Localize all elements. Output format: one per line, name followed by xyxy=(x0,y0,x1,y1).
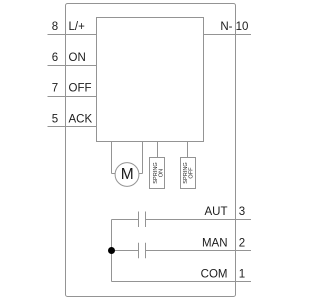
svg-text:N-: N- xyxy=(220,21,232,33)
svg-text:COM: COM xyxy=(201,269,228,281)
wire MAN right segment to terminal 2 xyxy=(146,250,252,252)
wire terminal 7 OFF xyxy=(48,96,97,98)
wire COM to terminal 1 xyxy=(112,281,252,283)
svg-text:10: 10 xyxy=(236,21,249,33)
svg-text:3: 3 xyxy=(239,206,245,218)
wire common vertical bus xyxy=(111,220,113,282)
spring-return OFF stem wire xyxy=(187,142,189,158)
motor leg left wire xyxy=(111,142,113,174)
spring-return ON box xyxy=(150,158,165,189)
wire terminal N- 10 xyxy=(204,34,252,36)
enclosure outer box xyxy=(66,4,236,297)
svg-text:MAN: MAN xyxy=(202,237,228,249)
svg-text:L/+: L/+ xyxy=(69,21,86,33)
svg-text:M: M xyxy=(121,166,134,183)
svg-text:8: 8 xyxy=(52,21,58,33)
wire terminal 5 ACK xyxy=(48,126,97,128)
svg-text:ON: ON xyxy=(158,169,164,177)
svg-text:5: 5 xyxy=(52,113,58,125)
motor stub left wire xyxy=(112,173,116,175)
svg-text:6: 6 xyxy=(52,52,58,64)
svg-text:ACK: ACK xyxy=(69,113,93,125)
motor leg right wire xyxy=(142,142,144,174)
svg-text:7: 7 xyxy=(52,83,58,95)
svg-text:2: 2 xyxy=(239,237,245,249)
wire MAN left segment xyxy=(112,250,139,252)
device inner box xyxy=(97,18,204,142)
contact S-AUT bars xyxy=(138,212,140,228)
wire terminal 6 ON xyxy=(48,65,97,67)
wire terminal 8 L/+ xyxy=(48,34,97,36)
svg-text:AUT: AUT xyxy=(205,206,228,218)
wire AUT right segment to terminal 3 xyxy=(146,219,252,221)
spring-return OFF box xyxy=(181,158,196,189)
junction dot on MAN line xyxy=(108,247,115,254)
svg-text:ON: ON xyxy=(69,52,86,64)
motor stub right wire xyxy=(139,173,143,175)
svg-text:OFF: OFF xyxy=(189,167,195,179)
contact S-MAN bars xyxy=(138,243,140,258)
motor M1 xyxy=(115,163,139,187)
wire AUT left segment xyxy=(112,219,139,221)
svg-text:1: 1 xyxy=(239,269,245,281)
svg-text:OFF: OFF xyxy=(69,83,92,95)
spring-return ON stem wire xyxy=(157,142,159,158)
